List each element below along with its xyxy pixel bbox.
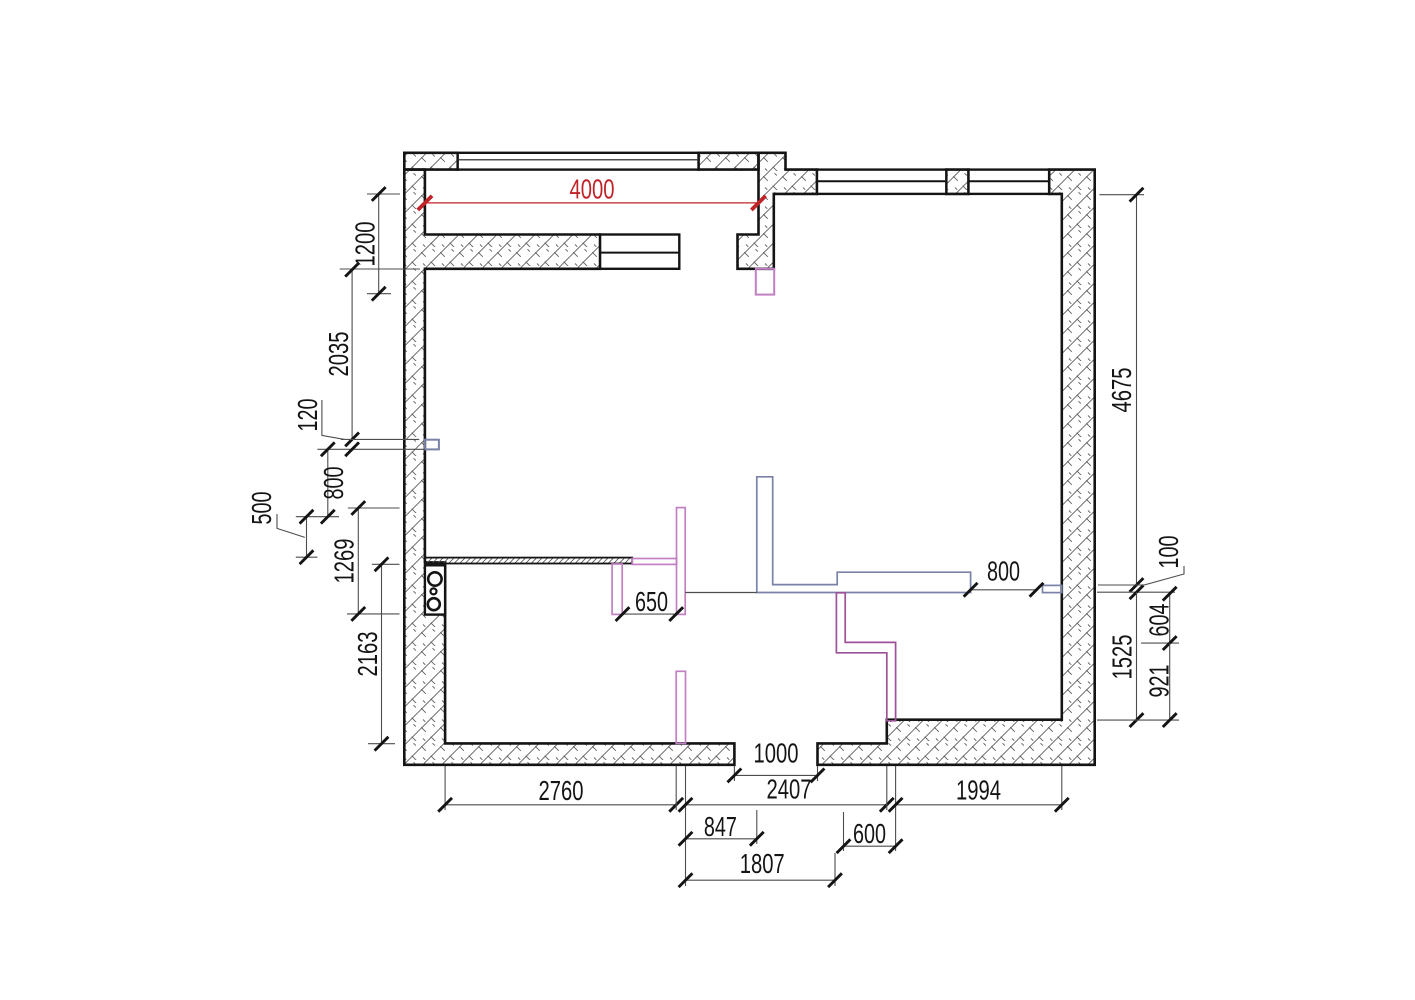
dim 600 (bottom)	[843, 812, 845, 851]
wall: top band between balcony window and niche right wall (hatched)	[699, 153, 759, 170]
magenta stepped partition (new wall)	[836, 593, 895, 721]
dim 2407 (bottom)	[675, 766, 677, 810]
blue partition: L-shaped stub wall	[757, 477, 971, 593]
svg-text:800: 800	[318, 467, 349, 500]
magenta jamb left of 650 opening	[612, 564, 622, 614]
dim 650 (kitchen opening)	[623, 613, 677, 615]
wall: mullion between right windows (hatched)	[946, 170, 968, 194]
svg-text:650: 650	[635, 586, 668, 617]
svg-text:4000: 4000	[570, 174, 615, 205]
wall: left wall + kitchen top band + bottom-left wall (hatched)	[404, 170, 734, 765]
svg-text:4675: 4675	[1106, 368, 1137, 413]
window: balcony window (top-left)	[458, 153, 699, 170]
dim 1000 (bottom doorway)	[733, 766, 735, 781]
dim 100 (right, leader)	[1098, 584, 1144, 586]
svg-text:500: 500	[246, 492, 277, 525]
wall: top-left corner block (hatched)	[404, 153, 457, 170]
window: right room window 2	[969, 170, 1050, 194]
svg-text:800: 800	[987, 556, 1020, 587]
blue stub at right wall	[1043, 585, 1062, 592]
svg-text:921: 921	[1144, 665, 1175, 698]
svg-text:1525: 1525	[1107, 635, 1138, 680]
dim 2035 (left)	[340, 268, 420, 270]
svg-text:2760: 2760	[539, 775, 584, 806]
svg-text:1994: 1994	[956, 775, 1001, 806]
blue vent box on left wall	[425, 440, 439, 450]
svg-text:600: 600	[853, 818, 886, 849]
dim 1807 (bottom)	[834, 853, 836, 886]
magenta pier stub below niche right wall	[756, 269, 774, 295]
svg-text:1000: 1000	[754, 738, 799, 769]
dim 4675 (right)	[1099, 194, 1144, 196]
magenta link from counter to jamb	[632, 559, 676, 565]
dim 1525 (right)	[1136, 592, 1138, 720]
magenta jamb right of 650 opening (tall)	[677, 508, 686, 615]
dim 800 (blue partition opening)	[971, 589, 1037, 591]
dim 2760 (bottom)	[444, 766, 446, 810]
dim 847 (bottom)	[756, 810, 758, 844]
svg-text:2035: 2035	[323, 332, 354, 377]
counter strip along kitchen	[425, 558, 632, 564]
thin reference line jamb-to-blue partition	[685, 592, 757, 594]
svg-text:120: 120	[292, 399, 323, 432]
dim 500 (left, leader)	[296, 556, 318, 558]
svg-text:847: 847	[704, 811, 737, 842]
svg-text:1269: 1269	[329, 539, 360, 584]
svg-text:2163: 2163	[352, 632, 383, 677]
dim 2163 (left)	[372, 563, 400, 565]
dim 604 (right)	[1141, 642, 1179, 644]
svg-text:2407: 2407	[767, 773, 812, 804]
dim 800 (left)	[296, 516, 339, 518]
wall: top step block + niche right wall + foot (hatched)	[738, 153, 818, 269]
svg-text:604: 604	[1144, 604, 1175, 637]
svg-text:1200: 1200	[350, 222, 381, 267]
dim 1200 (left)	[367, 193, 400, 195]
cabinet block in kitchen top band	[600, 235, 679, 269]
svg-text:100: 100	[1153, 536, 1184, 569]
svg-text:1807: 1807	[740, 848, 785, 879]
dim 120 (left, leader)	[341, 438, 419, 440]
wall: right wall + bottom-right wall (hatched)	[818, 170, 1095, 765]
dim 921 (right)	[1097, 719, 1179, 721]
magenta lower jamb at bottom doorway	[676, 671, 685, 743]
stove with burners	[425, 565, 445, 614]
red dimension 4000 inside balcony niche	[425, 202, 759, 204]
dim 1994 (bottom)	[886, 766, 888, 810]
dim 1269 (left)	[348, 507, 400, 509]
window: right room window 1	[817, 170, 946, 194]
